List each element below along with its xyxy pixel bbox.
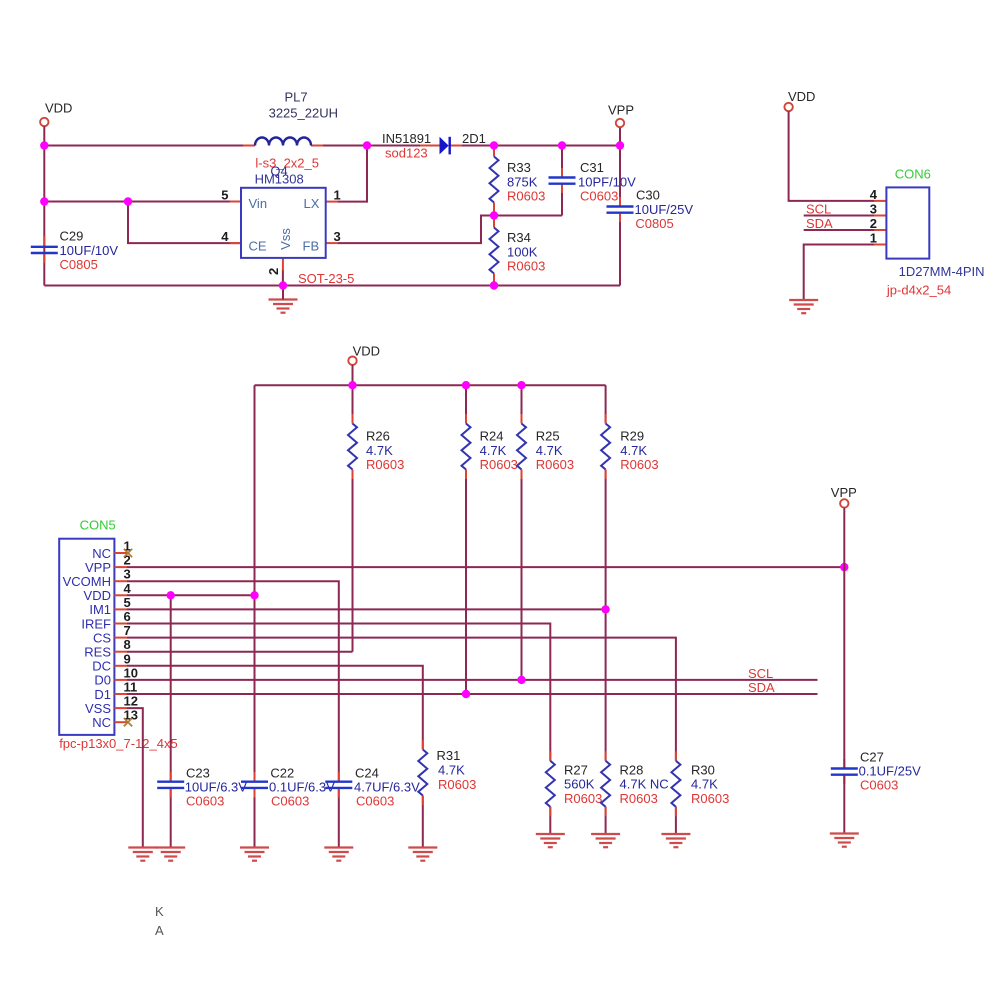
resistor R30 bbox=[671, 761, 729, 807]
svg-text:3: 3 bbox=[334, 229, 341, 244]
wire RES pin8 bbox=[127, 651, 353, 653]
svg-text:9: 9 bbox=[124, 651, 131, 666]
svg-text:1: 1 bbox=[334, 188, 341, 203]
svg-text:2: 2 bbox=[870, 216, 877, 231]
node VDD (right) bbox=[784, 89, 815, 111]
svg-text:C27: C27 bbox=[860, 750, 884, 765]
wire bottom ground rail bbox=[44, 285, 620, 287]
ground (C23) bbox=[156, 848, 185, 861]
svg-text:R30: R30 bbox=[691, 762, 715, 777]
svg-text:10UF/25V: 10UF/25V bbox=[635, 202, 694, 217]
svg-text:Vin: Vin bbox=[249, 196, 268, 211]
svg-text:IREF: IREF bbox=[81, 616, 111, 631]
wire pin2 Vss to ground rail bbox=[282, 269, 284, 286]
svg-text:VPP: VPP bbox=[608, 103, 634, 118]
wire R24 column to SDA bbox=[465, 385, 467, 423]
svg-text:8: 8 bbox=[124, 637, 131, 652]
svg-text:IM1: IM1 bbox=[89, 602, 111, 617]
wire C31 branch bbox=[561, 146, 563, 178]
stubs CON5 pins bbox=[114, 553, 127, 722]
resistor R34 bbox=[490, 228, 546, 274]
svg-text:R24: R24 bbox=[480, 429, 504, 444]
resistor R25 bbox=[517, 424, 574, 473]
capacitor C29 bbox=[31, 229, 119, 272]
svg-text:D0: D0 bbox=[94, 673, 111, 688]
svg-text:Vss: Vss bbox=[278, 228, 293, 250]
svg-text:R0603: R0603 bbox=[480, 457, 518, 472]
ground (VSS) bbox=[128, 848, 157, 861]
svg-text:R0603: R0603 bbox=[366, 457, 404, 472]
wire VDD to pin4 bbox=[789, 111, 874, 201]
svg-text:LX: LX bbox=[304, 196, 320, 211]
svg-text:C31: C31 bbox=[580, 160, 604, 175]
CON5 pin numbers bbox=[124, 539, 138, 723]
connector CON5 bbox=[59, 518, 178, 752]
svg-text:R26: R26 bbox=[366, 429, 390, 444]
svg-text:R0603: R0603 bbox=[620, 457, 658, 472]
svg-text:R33: R33 bbox=[507, 160, 531, 175]
diode 2D1 bbox=[382, 131, 486, 161]
stubs middle resistors bbox=[353, 414, 606, 479]
svg-text:4: 4 bbox=[870, 187, 878, 202]
wire VDD stem bbox=[352, 365, 354, 385]
svg-text:R34: R34 bbox=[507, 230, 531, 245]
resistor R29 bbox=[601, 424, 659, 473]
capacitor C22 bbox=[241, 766, 335, 809]
svg-text:R0603: R0603 bbox=[438, 777, 476, 792]
node VDD (top-left) bbox=[40, 101, 72, 127]
stubs bottom components bbox=[171, 740, 845, 816]
svg-text:R0603: R0603 bbox=[564, 791, 602, 806]
svg-text:3: 3 bbox=[124, 567, 131, 582]
svg-text:VSS: VSS bbox=[85, 701, 111, 716]
inductor PL7 bbox=[255, 90, 338, 171]
svg-text:R0603: R0603 bbox=[507, 258, 545, 273]
svg-text:C0603: C0603 bbox=[356, 794, 394, 809]
svg-text:4.7K: 4.7K bbox=[480, 443, 507, 458]
svg-text:4.7K: 4.7K bbox=[620, 443, 647, 458]
wire FB net bbox=[338, 216, 495, 244]
connector CON6 bbox=[870, 167, 985, 298]
wire diode to VPP bbox=[451, 145, 621, 147]
ground (C22) bbox=[240, 848, 269, 861]
svg-text:VDD: VDD bbox=[353, 344, 380, 359]
svg-text:HM1308: HM1308 bbox=[255, 172, 304, 187]
wire R33/R34 column bbox=[493, 146, 495, 157]
wire CE branch bbox=[128, 202, 241, 244]
no-connect X pin1 bbox=[124, 549, 132, 557]
wire SDA pin2 bbox=[804, 229, 874, 231]
svg-text:C22: C22 bbox=[270, 766, 294, 781]
svg-text:R0603: R0603 bbox=[536, 457, 574, 472]
svg-text:RES: RES bbox=[84, 645, 111, 660]
capacitor C24 bbox=[325, 766, 420, 809]
svg-text:C29: C29 bbox=[60, 229, 84, 244]
capacitor C31 bbox=[549, 160, 637, 203]
svg-text:VDD: VDD bbox=[84, 588, 111, 603]
svg-text:K: K bbox=[155, 904, 164, 919]
stubs chip pins bbox=[44, 146, 620, 285]
svg-text:VDD: VDD bbox=[45, 101, 72, 116]
ground (R27) bbox=[536, 834, 565, 847]
wire IM1 pin5 bbox=[127, 608, 606, 610]
svg-text:12: 12 bbox=[124, 694, 138, 709]
ground (CON6) bbox=[789, 300, 818, 313]
no-connect X pin13 bbox=[124, 718, 132, 726]
resistor R28 bbox=[601, 761, 669, 807]
wire VDD rail bbox=[255, 384, 606, 386]
resistor R24 bbox=[462, 424, 518, 473]
node VPP (top) bbox=[608, 103, 634, 128]
svg-text:C0603: C0603 bbox=[186, 794, 224, 809]
svg-text:875K: 875K bbox=[507, 174, 538, 189]
svg-text:100K: 100K bbox=[507, 244, 538, 259]
wire VCOMH to C24 bbox=[127, 581, 339, 782]
svg-text:10UF/6.3V: 10UF/6.3V bbox=[185, 780, 247, 795]
svg-text:4.7K: 4.7K bbox=[691, 777, 718, 792]
svg-text:4.7K: 4.7K bbox=[438, 763, 465, 778]
svg-text:10: 10 bbox=[124, 665, 138, 680]
svg-text:3225_22UH: 3225_22UH bbox=[269, 106, 338, 121]
svg-text:R29: R29 bbox=[620, 429, 644, 444]
wire VDD vertical left bbox=[43, 126, 45, 285]
svg-text:C0805: C0805 bbox=[635, 216, 673, 231]
svg-text:FB: FB bbox=[303, 239, 320, 254]
wire rail-left down to C22 bbox=[254, 385, 256, 782]
capacitor C30 bbox=[607, 188, 694, 231]
node VPP (right) bbox=[831, 485, 857, 508]
svg-text:VCOMH: VCOMH bbox=[63, 574, 111, 589]
svg-text:DC: DC bbox=[92, 659, 111, 674]
junction dots nets bbox=[167, 591, 175, 599]
svg-text:0.1UF/25V: 0.1UF/25V bbox=[859, 763, 921, 778]
wire LX branch bbox=[338, 146, 368, 202]
resistor R27 bbox=[546, 761, 603, 807]
svg-text:VDD: VDD bbox=[788, 89, 815, 104]
svg-text:A: A bbox=[155, 923, 164, 938]
svg-text:R31: R31 bbox=[437, 748, 461, 763]
wire C23 branch bbox=[170, 595, 172, 781]
svg-text:C0603: C0603 bbox=[271, 794, 309, 809]
svg-text:6: 6 bbox=[124, 609, 131, 624]
wire pin1 to ground bbox=[804, 245, 874, 301]
wire SDA net pin11 bbox=[127, 693, 818, 695]
wire VPP column / C30 bbox=[619, 127, 621, 206]
wire SCL pin3 bbox=[804, 215, 874, 217]
wire IREF to R27 bbox=[127, 624, 550, 761]
svg-text:2D1: 2D1 bbox=[462, 131, 486, 146]
svg-text:PL7: PL7 bbox=[285, 90, 308, 105]
wire pin5 Vin bbox=[44, 201, 241, 203]
svg-text:4.7K: 4.7K bbox=[536, 443, 563, 458]
svg-text:CON5: CON5 bbox=[80, 518, 116, 533]
svg-text:D1: D1 bbox=[94, 687, 111, 702]
svg-text:1D27MM-4PIN: 1D27MM-4PIN bbox=[899, 264, 985, 279]
svg-text:C0603: C0603 bbox=[860, 777, 898, 792]
svg-text:NC: NC bbox=[92, 546, 111, 561]
svg-text:VPP: VPP bbox=[831, 485, 857, 500]
svg-text:R0603: R0603 bbox=[691, 791, 729, 806]
CON5 pin names bbox=[63, 546, 112, 730]
svg-text:sod123: sod123 bbox=[385, 146, 428, 161]
svg-text:10PF/10V: 10PF/10V bbox=[578, 174, 636, 189]
svg-text:SCL: SCL bbox=[748, 666, 773, 681]
svg-text:R0603: R0603 bbox=[620, 791, 658, 806]
wire VPP column to C27 bbox=[843, 508, 845, 769]
svg-text:4: 4 bbox=[124, 581, 132, 596]
node VDD (middle) bbox=[348, 344, 380, 365]
svg-text:NC: NC bbox=[92, 715, 111, 730]
svg-text:560K: 560K bbox=[564, 777, 595, 792]
wire R26 column to RES bbox=[352, 385, 354, 423]
wire CS to R30 bbox=[127, 638, 676, 761]
svg-text:7: 7 bbox=[124, 623, 131, 638]
svg-text:fpc-p13x0_7-12_4x5: fpc-p13x0_7-12_4x5 bbox=[59, 736, 178, 751]
svg-text:C24: C24 bbox=[355, 766, 379, 781]
ground (R28) bbox=[591, 834, 620, 847]
wire VDD to inductor bbox=[44, 145, 255, 147]
svg-text:5: 5 bbox=[221, 188, 228, 203]
svg-text:4.7K: 4.7K bbox=[366, 443, 393, 458]
ground (R30) bbox=[661, 834, 690, 847]
svg-text:VPP: VPP bbox=[85, 560, 111, 575]
wire R29/R28 column bbox=[605, 385, 607, 423]
op-amp U1 : HM1308 regulator box bbox=[221, 172, 354, 287]
svg-text:R28: R28 bbox=[620, 762, 644, 777]
svg-text:CE: CE bbox=[249, 239, 267, 254]
svg-text:CS: CS bbox=[93, 630, 111, 645]
svg-text:2: 2 bbox=[266, 268, 281, 275]
svg-text:4.7UF/6.3V: 4.7UF/6.3V bbox=[354, 780, 420, 795]
capacitor C23 bbox=[157, 766, 247, 809]
svg-text:R27: R27 bbox=[564, 762, 588, 777]
svg-text:10UF/10V: 10UF/10V bbox=[60, 243, 119, 258]
svg-text:SDA: SDA bbox=[748, 680, 775, 695]
svg-text:CON6: CON6 bbox=[895, 167, 931, 182]
ground (C27) bbox=[830, 834, 859, 847]
resistor R26 bbox=[348, 424, 404, 473]
svg-text:R0603: R0603 bbox=[507, 188, 545, 203]
junction dots rail bbox=[348, 381, 356, 389]
svg-text:5: 5 bbox=[124, 595, 131, 610]
ground (C24) bbox=[324, 848, 353, 861]
wire VDD pin4 bbox=[127, 594, 255, 596]
wire R25 column to SCL bbox=[521, 385, 523, 423]
svg-text:C23: C23 bbox=[186, 766, 210, 781]
ground (R31) bbox=[408, 848, 437, 861]
resistor R33 bbox=[490, 157, 546, 204]
svg-text:C0805: C0805 bbox=[60, 257, 98, 272]
svg-text:IN51891: IN51891 bbox=[382, 131, 431, 146]
svg-text:C0603: C0603 bbox=[580, 188, 618, 203]
svg-text:SOT-23-5: SOT-23-5 bbox=[298, 271, 354, 286]
svg-text:C30: C30 bbox=[636, 188, 660, 203]
wire VSS pin12 bbox=[127, 708, 143, 847]
svg-text:SDA: SDA bbox=[806, 216, 833, 231]
svg-text:11: 11 bbox=[124, 680, 138, 695]
ground (chip) bbox=[269, 286, 298, 313]
wire inductor to diode bbox=[311, 145, 440, 147]
capacitor C27 bbox=[831, 750, 921, 793]
svg-text:0.1UF/6.3V: 0.1UF/6.3V bbox=[269, 780, 335, 795]
svg-text:jp-d4x2_54: jp-d4x2_54 bbox=[886, 283, 951, 298]
svg-text:1: 1 bbox=[870, 231, 877, 246]
svg-text:R25: R25 bbox=[536, 429, 560, 444]
svg-text:4: 4 bbox=[221, 229, 229, 244]
svg-text:3: 3 bbox=[870, 202, 877, 217]
svg-text:4.7K NC: 4.7K NC bbox=[620, 777, 669, 792]
resistor R31 bbox=[418, 748, 476, 796]
wire DC to R31 bbox=[127, 666, 423, 750]
wire SCL net pin10 bbox=[127, 679, 818, 681]
junction dots top-left bbox=[40, 141, 48, 149]
svg-text:SCL: SCL bbox=[806, 202, 831, 217]
stubs CON6 bbox=[874, 201, 886, 245]
wire VPP net pin2 bbox=[127, 566, 844, 568]
